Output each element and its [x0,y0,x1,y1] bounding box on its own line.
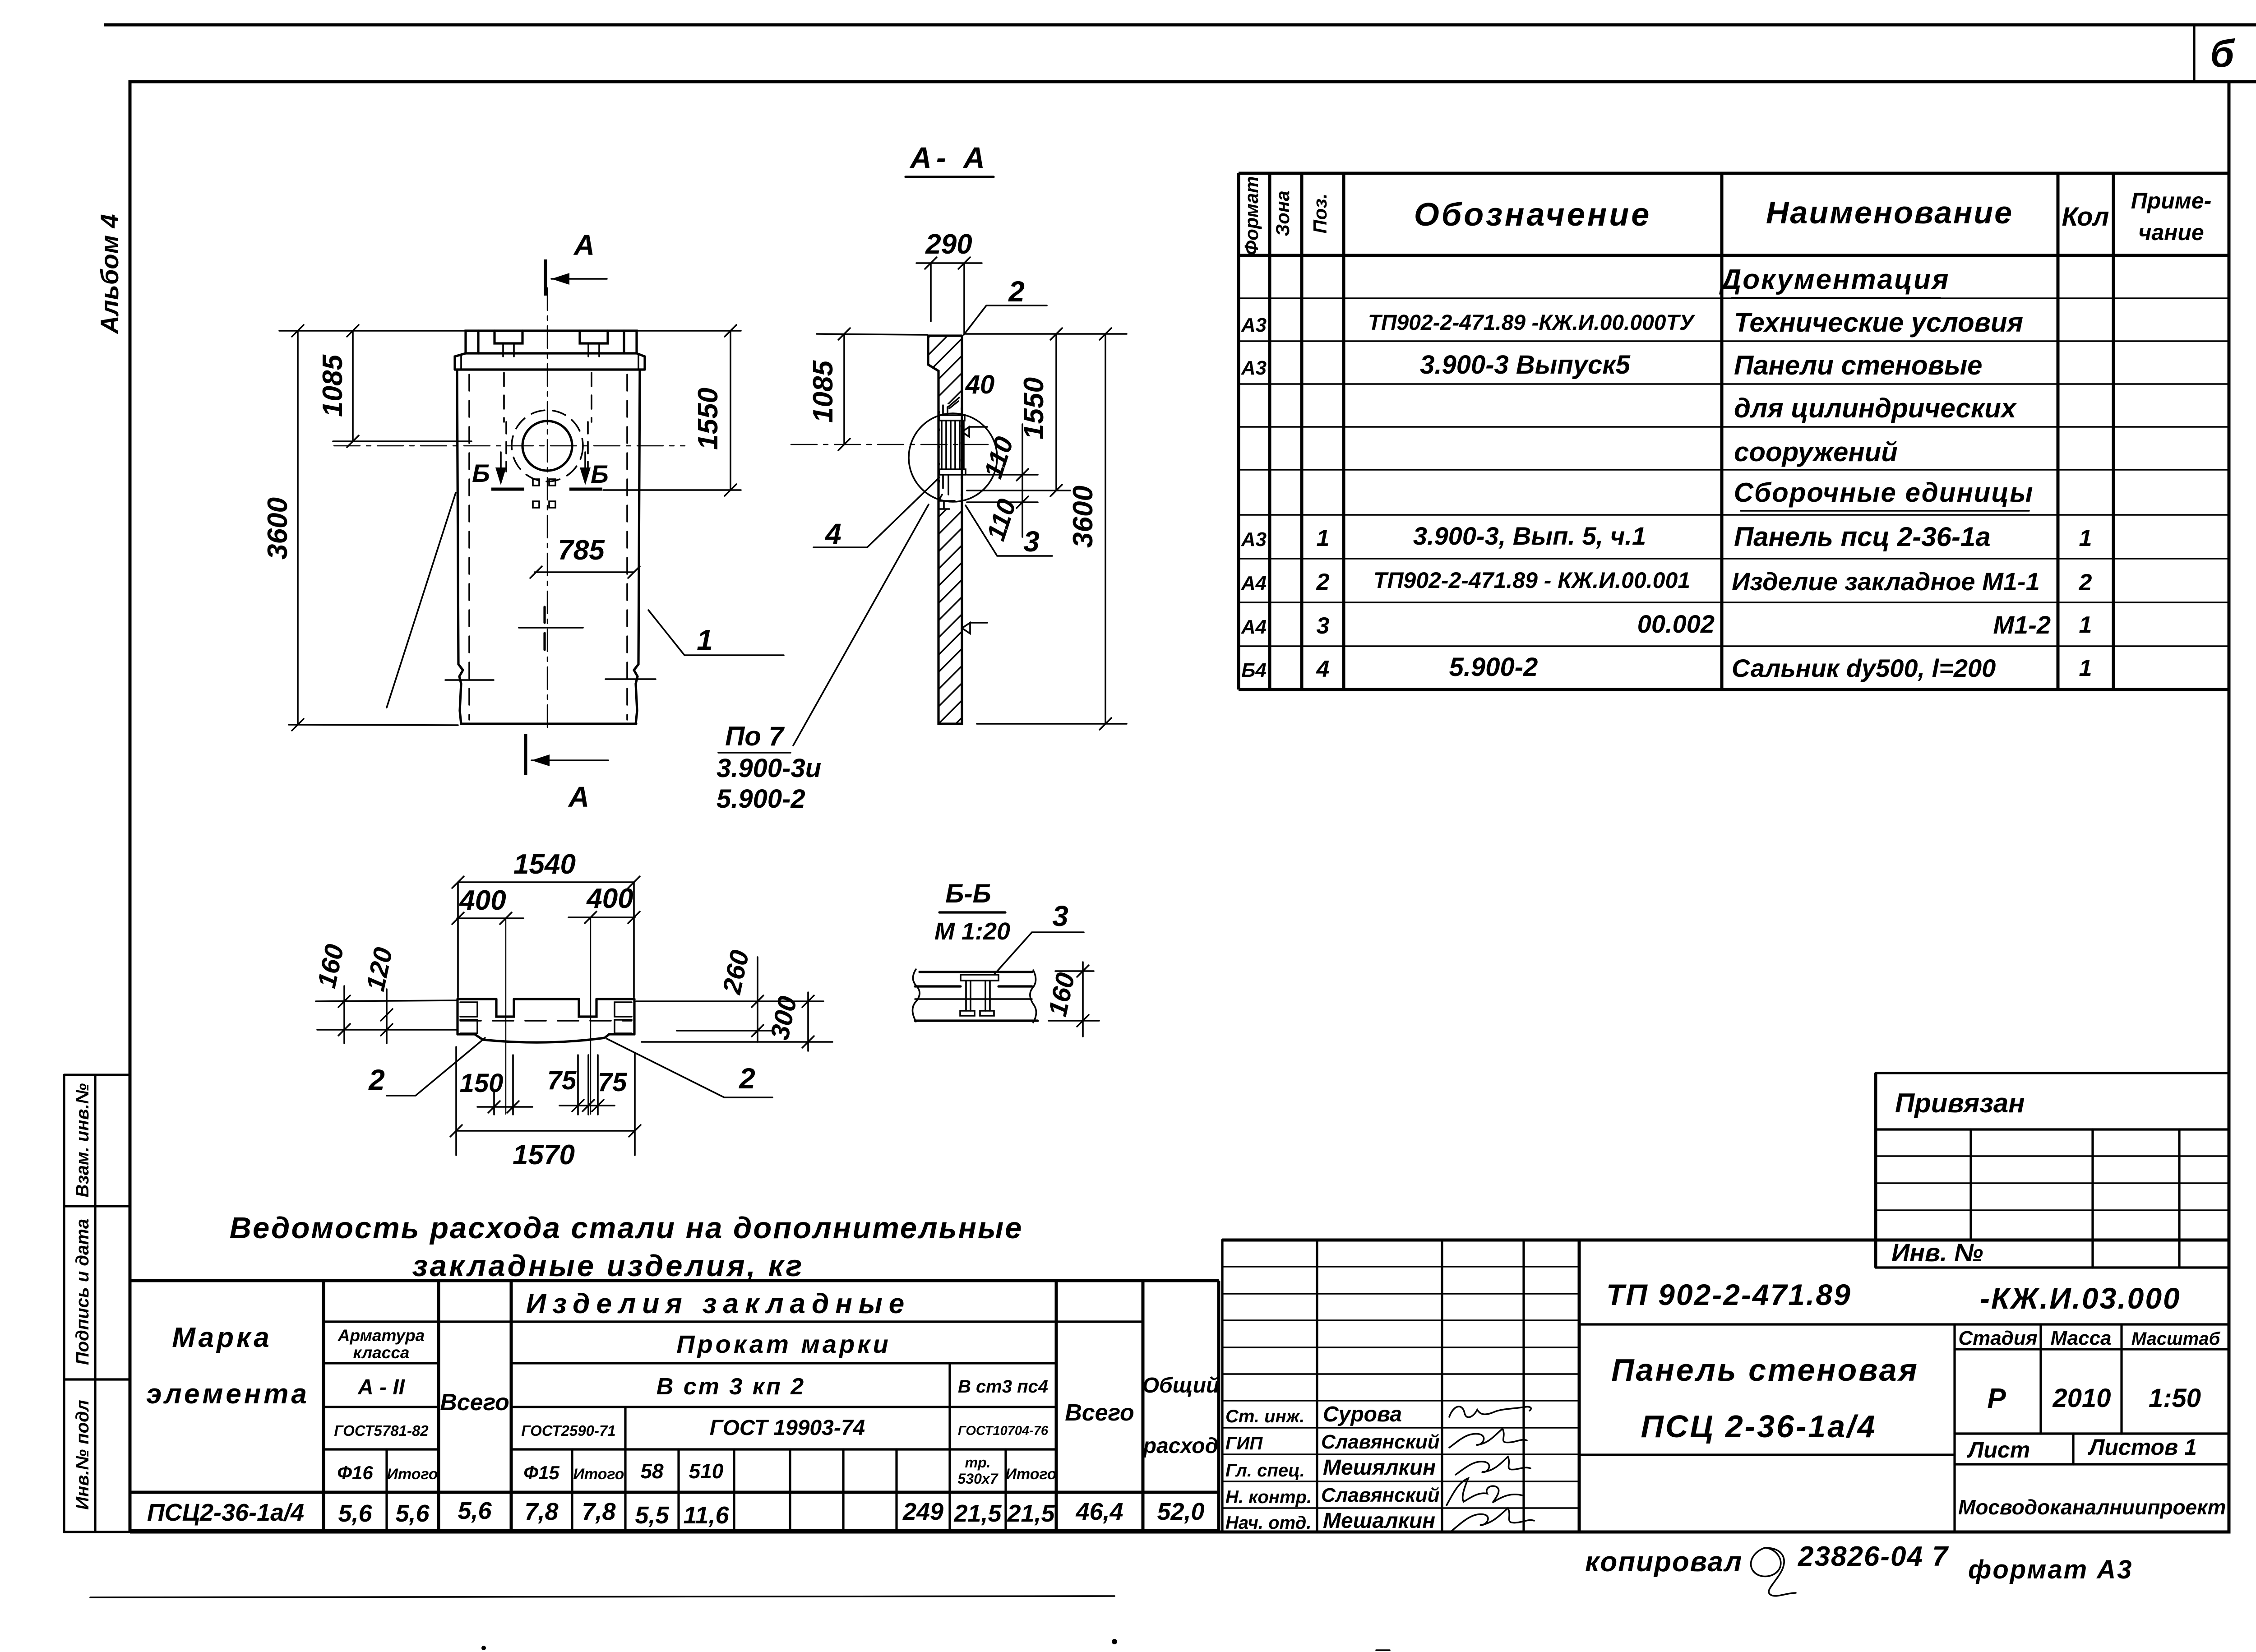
svg-text:400: 400 [586,883,633,914]
dim 160 plan: line [343,986,345,1043]
svg-text:Прокат марки: Прокат марки [676,1330,891,1358]
svg-text:Приме-: Приме- [2131,188,2212,213]
svg-text:1: 1 [2079,525,2092,551]
plan outline ends [458,999,634,1034]
svg-text:А4: А4 [1241,616,1267,638]
svg-text:1: 1 [2079,612,2092,638]
spec table grid [1239,173,2113,689]
svg-text:Славянский: Славянский [1321,1431,1440,1453]
svg-text:Ф16: Ф16 [337,1462,373,1483]
collar inner verticals [461,356,638,370]
svg-text:Стадия: Стадия [1958,1327,2037,1349]
svg-text:1550: 1550 [693,388,724,450]
svg-text:ГОСТ5781-82: ГОСТ5781-82 [334,1422,429,1439]
dim 150: line [477,1106,532,1108]
svg-text:Изделие закладное М1-1: Изделие закладное М1-1 [1732,567,2040,596]
svg-text:510: 510 [689,1459,724,1483]
svg-text:В ст3 пс4: В ст3 пс4 [958,1377,1048,1397]
svg-text:7,8: 7,8 [582,1498,615,1525]
svg-text:46,4: 46,4 [1075,1498,1123,1525]
svg-text:1085: 1085 [317,354,348,417]
svg-text:3.900-3и: 3.900-3и [717,754,821,783]
dim 785: line [535,571,634,573]
anchor axis right [590,917,591,1114]
embed channel webs [942,421,964,469]
svg-text:3.900-3, Вып. 5, ч.1: 3.900-3, Вып. 5, ч.1 [1413,522,1646,550]
svg-text:-КЖ.И.03.000: -КЖ.И.03.000 [1980,1282,2181,1315]
panel centre line vertical [547,288,548,732]
svg-text:Зона: Зона [1272,190,1293,236]
embed zone blank window [940,404,961,509]
svg-text:тр.: тр. [965,1454,991,1471]
svg-text:Ф15: Ф15 [523,1462,559,1483]
svg-text:75: 75 [598,1068,627,1097]
detail circle [909,413,997,502]
svg-text:Мешалкин: Мешалкин [1323,1509,1435,1533]
svg-text:ГИП: ГИП [1225,1434,1263,1453]
svg-text:5,6: 5,6 [338,1500,372,1527]
anchor slot left [496,999,514,1017]
embed studs [966,981,990,1011]
dim 1085 front: extension bottom [333,440,472,442]
lifting tab left [495,331,522,343]
leader to pos.2 right [607,1039,772,1097]
slab inner line upper [915,985,1032,987]
signature scribble: Н.контр [1447,1478,1522,1505]
svg-text:150: 150 [460,1069,504,1098]
embed channel bottom plate [939,469,966,475]
svg-text:2: 2 [1316,569,1330,595]
svg-text:Ведомость расхода стали на: Ведомость расхода стали на дополнительны… [230,1211,1023,1245]
right break squiggle [1030,970,1036,1023]
dim 1550 section: extension bottom [967,490,1070,491]
svg-text:3.900-3 Выпуск5: 3.900-3 Выпуск5 [1420,350,1631,379]
svg-text:Технические условия: Технические условия [1734,307,2023,338]
svg-text:Альбом 4: Альбом 4 [95,214,124,335]
section mark A top: arrow [551,278,607,280]
section mark A top: cut line [544,259,547,296]
plan mid extension right [677,1030,773,1032]
svg-text:5.900-2: 5.900-2 [717,784,805,814]
dim 150: ext verticals [494,1055,513,1115]
svg-text:Обозначение: Обозначение [1414,197,1652,233]
svg-text:Изделия закладные: Изделия закладные [526,1288,911,1319]
svg-text:3: 3 [1052,900,1068,932]
stud feet [960,1011,994,1016]
panel body outline left edge [457,370,463,724]
plan bottom extension right [642,1041,832,1043]
dim 1550 front: extension top [638,330,741,332]
panel body outline right edge [634,370,640,724]
slab bottom line [915,1019,1038,1022]
svg-text:А4: А4 [1241,572,1267,594]
embed lower anchor [938,475,955,509]
plan top edge extension right [636,1000,823,1002]
svg-text:ПСЦ 2-36-1а/4: ПСЦ 2-36-1а/4 [1641,1409,1877,1444]
svg-text:для цилиндрических: для цилиндрических [1734,393,2017,423]
leader to pos.2 left [387,1038,485,1096]
dim 40: arrows [948,398,959,408]
left break squiggle [912,969,920,1022]
svg-text:ГОСТ2590-71: ГОСТ2590-71 [521,1422,615,1439]
box: Инв.№ подл [64,1531,130,1533]
svg-text:Формат: Формат [1241,176,1262,255]
svg-text:7,8: 7,8 [524,1498,558,1525]
svg-text:Кол: Кол [2062,202,2109,231]
section centre line [791,444,988,445]
dim 400 right: line [569,916,635,918]
svg-text:3600: 3600 [262,497,293,560]
signature scribble: Нач.отд [1452,1508,1534,1531]
svg-text:М1-2: М1-2 [1993,611,2051,639]
svg-text:Всего: Всего [1065,1400,1134,1426]
binding table grid [1876,1073,2229,1268]
svg-text:1085: 1085 [808,360,839,423]
svg-text:5,5: 5,5 [635,1502,669,1529]
svg-text:А3: А3 [1241,314,1267,336]
svg-text:Марка: Марка [172,1322,272,1353]
dim 1550 front: extension bottom [603,489,741,491]
slab top line [920,971,1032,973]
svg-text:1: 1 [2079,655,2092,681]
svg-text:Б: Б [591,460,609,488]
svg-text:ПСЦ2-36-1а/4: ПСЦ2-36-1а/4 [147,1499,304,1526]
svg-text:А- А: А- А [909,141,989,174]
dim 1085 section: line [843,334,845,444]
dim 3600 section: extension top [966,333,1127,335]
svg-text:Всего: Всего [440,1389,509,1416]
svg-text:2: 2 [2079,569,2092,596]
svg-text:копировал: копировал [1585,1546,1743,1578]
svg-text:23826-04 7: 23826-04 7 [1798,1541,1949,1572]
svg-text:ТП 902-2-471.89: ТП 902-2-471.89 [1606,1278,1852,1311]
svg-text:Поз.: Поз. [1309,194,1331,234]
svg-text:Сальник dу500, l=200: Сальник dу500, l=200 [1732,654,1996,682]
svg-text:58: 58 [640,1459,664,1483]
weld triangle on face lower [962,623,987,634]
stray leader from Б mark [387,493,456,708]
svg-text:2: 2 [1008,275,1025,308]
svg-text:Итого: Итого [1005,1466,1056,1483]
svg-text:ТП902-2-471.89 -КЖ.И.00.000Т: ТП902-2-471.89 -КЖ.И.00.000ТУ [1368,311,1696,335]
title block right part lines [1579,1324,2229,1464]
section mark Б right: cut line [569,488,602,491]
dim 110 upper: line [1022,424,1023,537]
svg-text:3: 3 [1023,525,1040,558]
dim 1085 front: line [352,331,354,441]
svg-text:Панель стеновая: Панель стеновая [1611,1352,1919,1388]
svg-text:785: 785 [558,535,605,566]
svg-text:класса: класса [353,1343,409,1362]
dim 1570: extensions [455,1047,457,1155]
svg-text:1: 1 [1317,525,1330,551]
svg-text:Инв. №: Инв. № [1891,1238,1983,1267]
dim 75+75: ext verticals [578,1055,598,1115]
slab inner line lower [915,998,1032,1000]
leader line to pos.1 [648,610,784,655]
svg-text:11,6: 11,6 [683,1502,729,1529]
plan top edge extension left [316,1000,457,1001]
lower embed mark: axis dashes [543,607,546,650]
svg-text:Р: Р [1987,1383,2006,1414]
svg-text:Итого: Итого [387,1466,438,1483]
leader to pos.3 [994,932,1084,975]
section mark A bottom: cut line [524,734,527,775]
svg-text:Масса: Масса [2050,1327,2111,1349]
svg-text:Наименование: Наименование [1766,195,2013,230]
dim 3600 section: line [1105,334,1106,724]
svg-text:Б4: Б4 [1241,659,1267,681]
dim 3600 left: extension bottom [289,725,458,725]
signature scribble: Сурова [1449,1407,1531,1417]
opening side dashes [505,422,507,472]
plan outline top edge [458,998,634,1000]
dim 160 BB: line [1082,962,1084,1037]
steel table header inner horizontals [324,1320,1143,1323]
dim 1570: line [456,1130,635,1132]
svg-text:чание: чание [2138,220,2204,245]
dim 75+75: line [559,1105,615,1106]
dim 290: line [916,262,982,264]
svg-text:Ст. инж.: Ст. инж. [1225,1407,1304,1426]
tab axis dashes below collar [503,373,505,422]
notch level line left [445,679,494,681]
svg-text:40: 40 [965,370,995,399]
svg-text:Сборочные единицы: Сборочные единицы [1734,477,2034,508]
plan left end anchor detail [460,1002,477,1033]
svg-text:ГОСТ10704-76: ГОСТ10704-76 [958,1424,1049,1438]
page bottom scan edge line [90,1596,1114,1597]
dim 3600 left: extension top [279,330,465,332]
svg-text:Славянский: Славянский [1321,1484,1440,1506]
steel table outer grid [130,1281,1219,1531]
plan lower edge extension left [317,1029,457,1031]
embed plate in slab [961,975,999,981]
dim 120 plan: line [386,989,388,1043]
stray scan dash right bottom [1376,1649,1390,1651]
dim 110 upper: extension lines [967,474,1038,476]
svg-text:530х7: 530х7 [958,1471,999,1487]
svg-text:2: 2 [739,1062,755,1095]
svg-text:сооружений: сооружений [1734,437,1898,467]
lower embed mark: horizontal line [519,627,583,629]
steel table header inner verticals [948,1363,951,1531]
svg-text:Масштаб: Масштаб [2131,1329,2221,1349]
dashed opening circle [512,410,583,481]
svg-text:Общий: Общий [1142,1374,1220,1397]
dim 290: extensions [930,263,932,321]
svg-text:290: 290 [925,229,972,260]
svg-text:элемента: элемента [146,1379,310,1410]
embedded plate squares [533,479,539,486]
stray scan dot right [1112,1639,1117,1644]
section mark Б right: arrow [584,452,586,482]
svg-text:Панели стеновые: Панели стеновые [1734,350,1983,380]
inner dashed contour lines [468,375,470,720]
notch level line right [606,678,656,680]
svg-text:2: 2 [368,1064,385,1096]
dim 260: line [757,957,758,1042]
cap corner notch lines [478,331,624,353]
svg-text:1540: 1540 [513,849,576,880]
title block outer and columns [1222,1240,1524,1532]
anchor slot right [579,999,596,1017]
svg-text:Арматура: Арматура [337,1326,425,1345]
dim 1540: line [458,881,634,883]
wall section outline [928,336,962,724]
leader to pos.2 [964,305,1047,335]
embed channel top plate [939,415,965,421]
embed channel top hook [943,405,948,415]
svg-text:5.900-2: 5.900-2 [1449,652,1538,682]
stray scan dot left [481,1646,486,1650]
svg-text:2010: 2010 [2052,1384,2111,1413]
dim 3600 section: extension bottom [977,723,1127,725]
svg-text:4: 4 [824,518,841,550]
long leader to note По 7 [793,504,929,745]
dim 1085 section: extension top [817,334,927,335]
signature scribble: Гл.спец [1456,1457,1530,1475]
svg-text:М 1:20: М 1:20 [934,918,1010,945]
leader to pos.3 [966,505,1052,556]
weld triangle on face upper [962,427,987,437]
dim 300: line [807,992,809,1051]
svg-text:А3: А3 [1241,528,1267,551]
panel top cap outline [466,331,637,353]
svg-text:ТП902-2-471.89 - КЖ.И.00.001: ТП902-2-471.89 - КЖ.И.00.001 [1373,568,1690,593]
svg-text:3600: 3600 [1068,486,1099,548]
svg-text:21,5: 21,5 [953,1500,1002,1527]
title block left signature rows [1222,1267,1579,1508]
svg-text:3: 3 [1317,613,1330,639]
svg-text:ГОСТ 19903-74: ГОСТ 19903-74 [710,1416,865,1440]
svg-text:Итого: Итого [573,1466,624,1483]
svg-text:21,5: 21,5 [1007,1500,1055,1527]
svg-text:А - II: А - II [357,1375,406,1399]
section mark A bottom: arrow [532,759,608,761]
dim 160 BB: extensions [1055,970,1094,972]
svg-text:Мешялкин: Мешялкин [1323,1456,1436,1480]
svg-text:А3: А3 [1241,357,1267,379]
section mark Б left: arrow [500,452,502,482]
tab tick marks [503,345,599,356]
svg-text:закладные изделия, кг: закладные изделия, кг [412,1249,804,1283]
sheet number box (б) top right [2193,26,2195,82]
svg-text:А: А [573,229,595,261]
svg-text:00.002: 00.002 [1637,610,1715,638]
left margin attribute boxes [64,1075,130,1532]
page top scan edge line [104,23,2256,27]
dim 1550 section: line [1055,334,1057,491]
dim 3600 left: line [297,331,299,725]
svg-text:4: 4 [1316,656,1330,682]
svg-text:Лист: Лист [1967,1437,2030,1462]
plan right end anchor detail [615,1002,632,1033]
svg-text:Н. контр.: Н. контр. [1225,1487,1312,1507]
svg-text:249: 249 [902,1498,943,1525]
svg-text:Б: Б [472,459,490,487]
svg-text:Сурова: Сурова [1323,1402,1402,1426]
dim 1540: extensions [457,882,459,997]
signature scribble: ГИП [1449,1429,1527,1448]
dim 1550 front: line [730,331,731,490]
svg-text:75: 75 [547,1066,577,1095]
anchor axis left [505,918,506,1114]
section mark Б left: cut line [491,488,524,491]
svg-text:формат А3: формат А3 [1968,1555,2133,1584]
svg-text:Б-Б: Б-Б [945,879,991,908]
plan centre dashed line [460,1020,632,1022]
svg-text:А: А [568,781,589,813]
svg-text:Гл. спец.: Гл. спец. [1225,1461,1305,1481]
svg-text:1: 1 [697,624,713,656]
svg-text:400: 400 [458,885,506,916]
svg-text:По 7: По 7 [725,721,785,751]
svg-text:Документация: Документация [1719,264,1950,295]
svg-text:5,6: 5,6 [458,1497,492,1524]
svg-text:Панель псц 2-36-1а: Панель псц 2-36-1а [1734,522,1991,552]
plan bottom curved edge [458,1034,634,1042]
svg-text:В ст 3 кп 2: В ст 3 кп 2 [656,1374,805,1400]
svg-text:1:50: 1:50 [2149,1384,2201,1413]
box: Взам. инв.№ [64,1075,130,1532]
hole circle [522,421,572,471]
svg-text:б: б [2210,32,2235,75]
stamp glyph [1751,1548,1796,1596]
leader to pos.4 [814,477,939,547]
box: Подпись и дата [64,1378,130,1380]
svg-text:Мосводоканалниипроект: Мосводоканалниипроект [1958,1495,2226,1519]
svg-text:1570: 1570 [513,1139,575,1171]
hole horizontal centre line [334,445,685,446]
svg-text:расход: расход [1142,1434,1219,1458]
svg-text:Инв.№ подл: Инв.№ подл [73,1400,92,1510]
svg-text:Взам. инв.№: Взам. инв.№ [73,1083,92,1197]
lifting tab right [580,331,608,343]
svg-text:52,0: 52,0 [1157,1498,1204,1525]
svg-text:Листов 1: Листов 1 [2088,1435,2197,1460]
svg-text:Нач. отд.: Нач. отд. [1225,1513,1311,1533]
svg-text:Привязан: Привязан [1895,1088,2025,1118]
svg-text:5,6: 5,6 [395,1500,430,1527]
svg-text:Подпись и дата: Подпись и дата [73,1219,92,1365]
panel collar band [455,353,645,370]
panel bottom edge [461,722,636,725]
dim 400 left: line [457,917,523,919]
wall section hatched body [928,336,962,724]
